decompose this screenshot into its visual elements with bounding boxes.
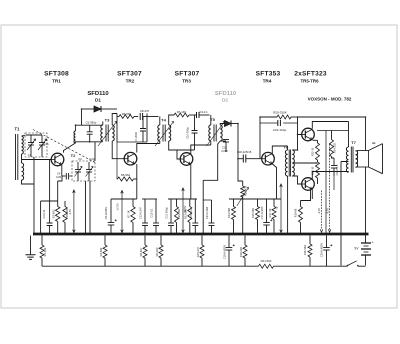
- wire T1 bottom to bus: [33, 157, 35, 234]
- wire feedback left node: [259, 117, 261, 159]
- tuning gang box (C2/C2A) dashed: [72, 161, 95, 181]
- svg-text:R7-1K: R7-1K: [127, 210, 131, 218]
- wire group C: [168, 198, 197, 200]
- wire T2 box bottoms to bus: [86, 181, 91, 234]
- wire TR5 emitter node: [317, 130, 349, 132]
- svg-text:R22-10: R22-10: [310, 147, 314, 156]
- wire TR1 base divider: [49, 160, 51, 223]
- svg-text:2xSFT323: 2xSFT323: [294, 71, 327, 78]
- wire TR4 emitter down: [272, 164, 276, 199]
- svg-text:SFD110: SFD110: [87, 91, 109, 97]
- svg-text:AL: AL: [372, 141, 376, 145]
- svg-text:TR4: TR4: [263, 79, 272, 84]
- wire detector node down: [237, 124, 239, 159]
- svg-text:C9-0,1: C9-0,1: [199, 110, 208, 114]
- wire TR5 base node: [298, 117, 302, 135]
- wire T4 top to R7: [169, 115, 174, 125]
- wire riser to T2 box: [94, 142, 96, 161]
- svg-text:-1,5V: -1,5V: [68, 209, 72, 215]
- wire emitter node down: [325, 131, 327, 234]
- wire top node to T3: [76, 124, 103, 126]
- svg-text:C11-500p: C11-500p: [165, 207, 169, 219]
- wire speaker return to battery: [365, 117, 367, 151]
- svg-text:0,05: 0,05: [56, 175, 62, 179]
- svg-text:T7: T7: [351, 140, 356, 145]
- wire TR3 emitter down: [191, 164, 192, 199]
- svg-text:R21-500: R21-500: [261, 259, 272, 263]
- wire TR6 emitter down: [311, 189, 313, 199]
- wire TR2 collector to T4: [137, 141, 160, 153]
- svg-text:R4-56K: R4-56K: [99, 247, 103, 256]
- svg-text:D2: D2: [222, 98, 228, 103]
- svg-text:R17-1K: R17-1K: [268, 208, 272, 217]
- svg-text:T6: T6: [283, 145, 288, 150]
- svg-text:SFT307: SFT307: [175, 71, 200, 78]
- svg-text:R20-330K: R20-330K: [273, 111, 287, 115]
- wire detector return: [203, 141, 220, 233]
- svg-text:C19-6,4/25V: C19-6,4/25V: [222, 244, 226, 259]
- wire T1 base tap: [21, 154, 23, 163]
- svg-text:T4: T4: [161, 118, 166, 123]
- svg-text:R15-470: R15-470: [196, 246, 200, 257]
- wire TR4 collector to T6: [272, 146, 287, 154]
- svg-text:R19-68: R19-68: [294, 208, 298, 217]
- wire TR5 collector to T7 top: [312, 122, 348, 148]
- wire bias bracket: [41, 200, 58, 202]
- svg-text:TR5-TR6: TR5-TR6: [300, 79, 319, 84]
- wire T6 secondary top to TR5 base: [292, 135, 297, 151]
- svg-text:R5-562: R5-562: [121, 173, 131, 177]
- wire T6 primary bottom to bus: [287, 176, 289, 234]
- svg-text:+: +: [372, 241, 374, 245]
- svg-text:R18-22K: R18-22K: [239, 247, 243, 258]
- svg-text:C6-16/16V: C6-16/16V: [104, 207, 108, 220]
- switch S1: [348, 261, 357, 266]
- wire group A: [111, 198, 137, 200]
- transistor TR6: [302, 178, 315, 191]
- svg-text:C2A: C2A: [89, 157, 95, 161]
- svg-text:R8-4K7: R8-4K7: [139, 247, 143, 256]
- svg-text:C18-125/15: C18-125/15: [237, 150, 252, 154]
- ground symbol: [30, 236, 32, 255]
- svg-text:R15-56K: R15-56K: [251, 208, 255, 219]
- svg-text:C3-0,01: C3-0,01: [42, 209, 46, 219]
- svg-text:C1A: C1A: [43, 142, 49, 146]
- svg-text:SFT308: SFT308: [44, 71, 69, 78]
- svg-text:D1: D1: [95, 98, 101, 103]
- transistor TR1: [51, 153, 64, 166]
- wire TR2 emitter down: [136, 164, 138, 199]
- svg-text:C22-1K0p: C22-1K0p: [273, 128, 287, 132]
- svg-text:C20-6,4/25V: C20-6,4/25V: [319, 242, 323, 257]
- svg-text:C7-2000: C7-2000: [134, 131, 138, 142]
- transistor TR3: [180, 153, 193, 166]
- diode D1: [94, 106, 101, 112]
- variable capacitor C1: [22, 135, 43, 136]
- wire feedback top to speaker: [298, 116, 366, 118]
- svg-text:R16-3K3: R16-3K3: [303, 244, 307, 255]
- svg-text:-4,0V: -4,0V: [317, 208, 321, 214]
- junction dots: [81, 108, 83, 110]
- wire box right: [146, 114, 148, 143]
- wire T6 secondary center tap: [292, 162, 317, 164]
- svg-text:T3: T3: [105, 118, 110, 123]
- svg-text:C12-0,1: C12-0,1: [150, 208, 154, 218]
- svg-text:C17-6,4/25: C17-6,4/25: [260, 206, 264, 219]
- wire TR3 collector to T5: [191, 141, 211, 154]
- wire TR2 base from T3: [112, 141, 124, 159]
- transistor TR2: [124, 152, 137, 165]
- svg-text:SFT307: SFT307: [117, 71, 142, 78]
- wire bottom node to T3: [76, 142, 103, 143]
- capacitor C16-0,005: [220, 139, 226, 141]
- svg-text:C8-470: C8-470: [140, 109, 150, 113]
- svg-text:TR2: TR2: [126, 79, 135, 84]
- wire T4 bottom / TR3 base: [169, 141, 195, 150]
- winding L1b: [22, 163, 24, 180]
- svg-text:SFD110: SFD110: [215, 91, 237, 97]
- wire D1 top line: [82, 108, 95, 110]
- svg-text:R2-3K2: R2-3K2: [51, 209, 55, 218]
- winding L1a: [22, 136, 24, 154]
- wire T6 secondary bottom to TR6 base: [292, 176, 302, 184]
- svg-text:T1: T1: [15, 127, 21, 132]
- wire TR6 collector to T7 bottom: [312, 172, 348, 179]
- svg-text:R12-680: R12-680: [184, 208, 188, 219]
- svg-text:-8,5V: -8,5V: [325, 208, 329, 214]
- transistor TR5: [302, 128, 315, 141]
- ground bus (thick): [33, 233, 369, 236]
- svg-text:-0,75V: -0,75V: [116, 203, 120, 211]
- svg-text:R14-5K6: R14-5K6: [227, 207, 231, 218]
- wire TR1 collector to osc coil: [64, 143, 76, 153]
- gang dashed link line: [33, 130, 95, 163]
- svg-text:C14-0,1: C14-0,1: [189, 208, 193, 218]
- wire box left: [116, 114, 118, 143]
- bottom rail wire: [42, 265, 259, 267]
- svg-text:C10-200p: C10-200p: [186, 127, 190, 139]
- svg-text:C2: C2: [78, 157, 82, 161]
- svg-text:VOXSON - MOD. 782: VOXSON - MOD. 782: [308, 97, 352, 102]
- diode D2: [220, 124, 224, 126]
- variable capacitor C1A: [41, 135, 43, 143]
- svg-text:R9-1K4: R9-1K4: [155, 247, 159, 256]
- svg-text:TR1: TR1: [52, 79, 61, 84]
- svg-text:C13-0,047: C13-0,047: [139, 206, 143, 219]
- wire group D: [229, 198, 281, 200]
- svg-text:TR3: TR3: [182, 79, 191, 84]
- svg-text:T2: T2: [71, 153, 76, 158]
- wire group B: [142, 198, 157, 200]
- wire TR6 emitter to R19: [301, 190, 311, 201]
- svg-text:7V: 7V: [275, 206, 279, 209]
- svg-text:R24-225: R24-225: [333, 142, 337, 153]
- svg-text:C5-390p: C5-390p: [86, 121, 97, 125]
- svg-text:0,005: 0,005: [221, 149, 228, 153]
- tuning gang box (C1/C1A) dashed: [25, 133, 47, 157]
- svg-text:SFT353: SFT353: [256, 71, 281, 78]
- transistor TR4: [262, 152, 275, 165]
- oscillator coil L2: [74, 131, 76, 143]
- wire T7 center tap down: [341, 162, 349, 266]
- svg-text:C21-0,068: C21-0,068: [205, 206, 209, 219]
